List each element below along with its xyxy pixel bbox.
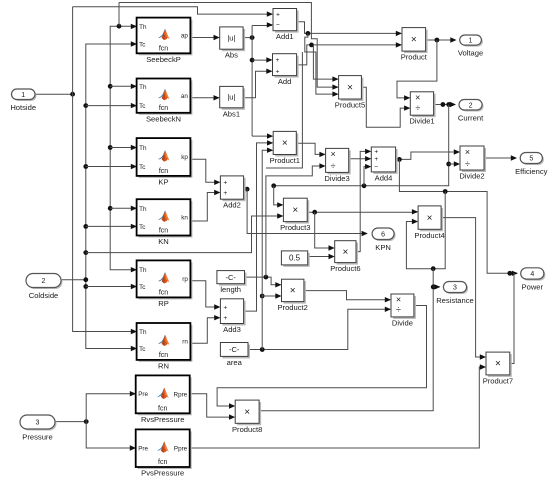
wire vertical Hotside bus VA down to RN Th bbox=[73, 7, 136, 332]
svg-text:÷: ÷ bbox=[465, 159, 470, 169]
svg-text:Resistance: Resistance bbox=[436, 296, 474, 305]
product block Product1 bbox=[270, 131, 300, 165]
svg-text:−: − bbox=[374, 164, 378, 171]
product block Product5 bbox=[335, 76, 365, 110]
svg-text:RP: RP bbox=[158, 299, 169, 308]
block RvsPressure bbox=[136, 375, 192, 423]
wire area constant to Divide in2 and Product1 in3 bbox=[248, 309, 390, 349]
svg-text:×: × bbox=[290, 286, 296, 297]
product block Product3 bbox=[280, 198, 310, 232]
svg-text:Th: Th bbox=[139, 267, 147, 274]
svg-text:length: length bbox=[220, 285, 241, 294]
wire Product1 output to Divide3 in1 bbox=[296, 143, 324, 154]
svg-text:-C-: -C- bbox=[225, 273, 236, 282]
svg-text:+: + bbox=[223, 180, 227, 187]
wire Product5 output to Divide1 in2 bbox=[361, 87, 409, 127]
svg-text:Divide2: Divide2 bbox=[459, 172, 484, 181]
svg-text:6: 6 bbox=[381, 231, 385, 238]
svg-text:Rpre: Rpre bbox=[174, 392, 188, 399]
svg-text:+: + bbox=[223, 190, 227, 197]
svg-text:5: 5 bbox=[529, 156, 533, 163]
wire Product6 output to Add4 in1 bbox=[356, 151, 370, 251]
wire rn to Add3 in2 bbox=[191, 318, 220, 344]
svg-text:Add2: Add2 bbox=[223, 201, 241, 210]
port Pressure bbox=[20, 415, 57, 442]
wire Divide3 output to Add4 in2 bbox=[349, 158, 371, 160]
svg-text:fcn: fcn bbox=[158, 406, 167, 413]
svg-text:RN: RN bbox=[158, 361, 169, 370]
port Resistance bbox=[436, 282, 474, 306]
wire branch to SeebeckN Tc bbox=[83, 103, 88, 108]
block area bbox=[220, 343, 250, 367]
svg-text:×: × bbox=[465, 147, 470, 157]
wire an to Abs1 bbox=[190, 97, 218, 99]
svg-text:Th: Th bbox=[139, 24, 147, 31]
svg-text:3: 3 bbox=[453, 285, 457, 292]
sum block Add bbox=[273, 54, 299, 86]
wire Abs output net to Add1 Add Product1 Product3 bbox=[243, 37, 252, 39]
wire Th bus VC SeebeckP to RP bbox=[110, 26, 136, 270]
svg-text:Add: Add bbox=[278, 77, 292, 86]
svg-text:−: − bbox=[276, 22, 280, 29]
wire Product2 output to Divide in1 bbox=[304, 291, 390, 300]
block SeebeckP bbox=[137, 18, 193, 64]
svg-text:fcn: fcn bbox=[159, 168, 168, 175]
svg-text:|u|: |u| bbox=[227, 93, 235, 102]
svg-text:0.5: 0.5 bbox=[289, 254, 301, 263]
wire mid vertical bbox=[266, 52, 302, 168]
svg-text:KP: KP bbox=[158, 177, 168, 186]
product block Product2 bbox=[277, 279, 307, 312]
svg-text:area: area bbox=[227, 358, 243, 367]
wire RvsPressure output to Product8 in2 bbox=[190, 394, 235, 417]
svg-text:SeebeckN: SeebeckN bbox=[146, 114, 181, 123]
svg-text:4: 4 bbox=[530, 271, 534, 278]
wire kn to Add2 in2 bbox=[190, 193, 220, 222]
svg-text:×: × bbox=[415, 93, 420, 103]
svg-text:Divide: Divide bbox=[392, 318, 413, 327]
wire Coldside branch east to Product3 in2 bbox=[83, 250, 88, 255]
svg-text:Tc: Tc bbox=[139, 42, 145, 49]
svg-text:Pre: Pre bbox=[138, 391, 148, 398]
divide block Divide3 bbox=[324, 148, 350, 183]
svg-text:+: + bbox=[374, 156, 378, 163]
svg-text:+: + bbox=[276, 57, 280, 64]
wire Divide2 output to Efficiency bbox=[484, 157, 516, 159]
block length bbox=[217, 271, 247, 295]
wire kp to Add2 in1 bbox=[190, 159, 220, 182]
svg-text:Tc: Tc bbox=[139, 346, 145, 353]
svg-text:fcn: fcn bbox=[159, 228, 168, 235]
svg-text:Th: Th bbox=[139, 84, 147, 91]
wire Coldside bus VB SeebeckP Tc to RN Tc bbox=[86, 44, 136, 349]
wire branch to KP Tc bbox=[83, 164, 88, 169]
wire Coldside to bus bbox=[61, 279, 86, 281]
block RN bbox=[137, 323, 193, 370]
wire Add3 output up to Product1 in2 bbox=[244, 143, 273, 311]
product block Product6 bbox=[330, 241, 360, 273]
wire branch to RP Tc bbox=[83, 284, 88, 289]
svg-text:Abs: Abs bbox=[225, 51, 238, 60]
svg-text:Add1: Add1 bbox=[276, 32, 294, 41]
svg-text:|u|: |u| bbox=[227, 34, 235, 43]
wire Add2 output to KPN bbox=[244, 188, 248, 190]
port Coldside bbox=[26, 274, 63, 301]
svg-text:2: 2 bbox=[469, 102, 473, 109]
divide block Divide bbox=[391, 294, 416, 327]
svg-text:+: + bbox=[276, 69, 280, 76]
svg-text:Divide1: Divide1 bbox=[409, 117, 434, 126]
svg-text:Add3: Add3 bbox=[223, 325, 241, 334]
svg-text:Product1: Product1 bbox=[270, 156, 300, 165]
svg-text:+: + bbox=[223, 304, 227, 311]
wire Add1 output to Product in1 and Product5 in3 bbox=[297, 22, 401, 34]
svg-text:Abs1: Abs1 bbox=[223, 109, 240, 118]
svg-text:+: + bbox=[276, 11, 280, 18]
wire Current net down to Divide2 in2 Add4 in3 Product3 in1 bbox=[274, 105, 449, 186]
wire Product output to Voltage and Divide1 in1 bbox=[426, 39, 456, 41]
svg-text:fcn: fcn bbox=[158, 459, 167, 466]
svg-text:Product5: Product5 bbox=[335, 101, 365, 110]
svg-text:-C-: -C- bbox=[229, 345, 240, 354]
wire Add output to Product in2 and Product5 in1 bbox=[297, 45, 401, 65]
wire top line from VA to Add1 in1 bbox=[73, 7, 272, 14]
svg-text:kn: kn bbox=[181, 215, 188, 222]
block SeebeckN bbox=[137, 79, 193, 124]
divide block Divide1 bbox=[409, 92, 435, 126]
wire Product7 output to Power bbox=[510, 273, 514, 363]
svg-text:Product3: Product3 bbox=[280, 223, 310, 232]
svg-text:Current: Current bbox=[458, 114, 484, 123]
wire area branch to Product2 in2 bbox=[260, 294, 265, 299]
block KP bbox=[137, 138, 193, 186]
sum block Add3 bbox=[220, 299, 245, 334]
port Hotside bbox=[10, 89, 36, 112]
svg-text:+: + bbox=[374, 149, 378, 156]
wire branch to KP Th bbox=[108, 145, 113, 150]
node Hotside junction bbox=[70, 92, 75, 97]
svg-text:Product2: Product2 bbox=[277, 303, 307, 312]
svg-text:Product: Product bbox=[401, 53, 428, 62]
svg-text:rp: rp bbox=[182, 276, 188, 283]
wire 0.5 to Product6 in2 bbox=[308, 256, 334, 258]
sum block Add4 bbox=[371, 147, 397, 182]
wire Pressure to RvsPressure and PvsPressure bbox=[55, 421, 86, 423]
block PvsPressure bbox=[136, 429, 192, 477]
svg-text:Product6: Product6 bbox=[330, 264, 360, 273]
port Efficiency bbox=[515, 153, 548, 177]
svg-text:Voltage: Voltage bbox=[458, 49, 483, 58]
wire branch to KN Th bbox=[108, 206, 113, 211]
svg-text:KN: KN bbox=[158, 237, 169, 246]
svg-text:SeebeckP: SeebeckP bbox=[146, 55, 181, 64]
svg-text:Product7: Product7 bbox=[483, 376, 513, 385]
svg-text:fcn: fcn bbox=[159, 46, 168, 53]
svg-text:÷: ÷ bbox=[415, 103, 420, 113]
block RP bbox=[137, 260, 193, 308]
svg-text:1: 1 bbox=[21, 92, 25, 99]
wire VD vertical from top line bbox=[118, 3, 120, 27]
svg-text:×: × bbox=[347, 83, 353, 94]
svg-text:Th: Th bbox=[139, 206, 147, 213]
wire Divide1 output to Current bbox=[434, 104, 455, 106]
svg-text:Th: Th bbox=[139, 145, 147, 152]
svg-text:2: 2 bbox=[42, 278, 46, 285]
wire Product3 output to Product4 in1 and Product6 in1 bbox=[307, 211, 417, 213]
svg-text:×: × bbox=[292, 205, 298, 216]
svg-text:PvsPressure: PvsPressure bbox=[141, 469, 184, 478]
wire Divide output to Product8 in1 bbox=[217, 306, 426, 407]
svg-text:KPN: KPN bbox=[375, 243, 391, 252]
wire Product4 output to Product7 in1 bbox=[441, 218, 485, 357]
port Current bbox=[458, 100, 484, 123]
svg-text:×: × bbox=[411, 35, 417, 46]
svg-text:1: 1 bbox=[469, 38, 473, 45]
svg-text:Tc: Tc bbox=[139, 164, 145, 171]
svg-text:Pressure: Pressure bbox=[22, 433, 52, 442]
wire rp to Add3 in1 bbox=[191, 281, 220, 307]
svg-text:×: × bbox=[244, 407, 250, 418]
svg-text:Pre: Pre bbox=[138, 446, 148, 453]
wire length constant to Product2 in1 and Divide3 in2 bbox=[245, 277, 281, 285]
block Abs bbox=[220, 27, 245, 60]
svg-text:×: × bbox=[342, 247, 348, 258]
svg-text:fcn: fcn bbox=[159, 105, 168, 112]
sum block Add1 bbox=[273, 9, 299, 42]
svg-text:ap: ap bbox=[181, 33, 189, 40]
product block Product bbox=[401, 28, 428, 62]
wire Add4 output to Divide2 in1 Resistance Power Product4 in2 Product8 bbox=[396, 152, 459, 159]
port Voltage bbox=[458, 35, 483, 58]
svg-text:kp: kp bbox=[181, 154, 188, 161]
wire ap to Abs bbox=[190, 37, 218, 39]
wire Abs1 output to Add in2 bbox=[243, 71, 271, 98]
svg-text:÷: ÷ bbox=[396, 304, 401, 314]
node junction top line to SeebeckP Th bbox=[117, 24, 122, 29]
svg-text:3: 3 bbox=[36, 420, 40, 427]
svg-text:Coldside: Coldside bbox=[29, 291, 59, 300]
svg-text:Divide3: Divide3 bbox=[324, 174, 349, 183]
svg-text:RvsPressure: RvsPressure bbox=[141, 415, 184, 424]
svg-text:×: × bbox=[330, 149, 335, 159]
svg-text:fcn: fcn bbox=[159, 352, 168, 359]
svg-text:×: × bbox=[495, 359, 501, 370]
svg-text:Product4: Product4 bbox=[414, 231, 444, 240]
svg-text:Tc: Tc bbox=[139, 224, 145, 231]
sum block Add2 bbox=[220, 176, 245, 210]
svg-text:Hotside: Hotside bbox=[10, 103, 36, 112]
block KN bbox=[137, 199, 193, 246]
port Power bbox=[521, 268, 546, 292]
svg-text:rn: rn bbox=[182, 339, 188, 346]
svg-text:×: × bbox=[427, 213, 433, 224]
svg-text:Tc: Tc bbox=[139, 103, 145, 110]
svg-text:Th: Th bbox=[139, 329, 147, 336]
svg-text:×: × bbox=[282, 138, 288, 149]
svg-text:+: + bbox=[223, 315, 227, 322]
wire Hotside to junction bbox=[35, 93, 73, 95]
svg-text:fcn: fcn bbox=[159, 290, 168, 297]
port KPN bbox=[372, 228, 396, 252]
wire PvsPressure output to Product7 in2 bbox=[190, 367, 485, 448]
svg-text:Efficiency: Efficiency bbox=[515, 167, 548, 176]
svg-text:Add4: Add4 bbox=[375, 173, 393, 182]
wire branch to KN Tc bbox=[83, 224, 88, 229]
product block Product7 bbox=[483, 352, 513, 385]
svg-text:an: an bbox=[181, 93, 189, 100]
svg-text:Ppre: Ppre bbox=[174, 445, 188, 452]
svg-text:Power: Power bbox=[522, 283, 544, 292]
wire top line L1 to Product5 in2 bbox=[119, 3, 338, 88]
svg-text:×: × bbox=[396, 295, 401, 305]
svg-text:÷: ÷ bbox=[331, 161, 336, 171]
block Abs1 bbox=[220, 86, 245, 118]
svg-text:Product8: Product8 bbox=[232, 425, 262, 434]
svg-text:Tc: Tc bbox=[139, 284, 145, 291]
product block Product8 bbox=[232, 400, 262, 434]
wire branch to SeebeckN Th bbox=[108, 84, 113, 89]
product block Product4 bbox=[414, 206, 444, 240]
divide block Divide2 bbox=[459, 146, 486, 181]
